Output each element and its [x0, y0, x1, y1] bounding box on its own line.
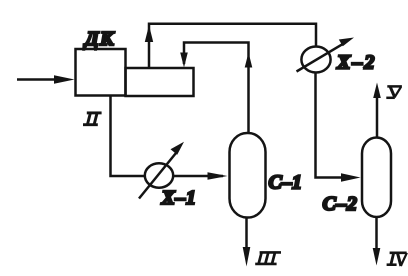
- arrowhead up on C-1 riser: [245, 53, 253, 68]
- wire stream III down from C-1 bottom: [243, 218, 251, 267]
- arrowhead up on box riser: [145, 25, 153, 42]
- arrowhead into C-1: [208, 172, 228, 180]
- wire from X-2 down and right into C-2: [316, 73, 345, 178]
- label IV (stream IV): [387, 253, 407, 266]
- heat exchanger X-1: [139, 142, 184, 199]
- svg-text:С–2: С–2: [323, 193, 358, 215]
- svg-text:Х–1: Х–1: [161, 187, 197, 209]
- svg-text:ДК: ДК: [83, 28, 115, 50]
- svg-text:Х–2: Х–2: [336, 52, 376, 74]
- wire recycle from C-1 top, left, down into unit box: [184, 43, 249, 134]
- vessel C-1 (separator): [230, 133, 266, 218]
- svg-text:С–1: С–1: [269, 172, 302, 194]
- label V (stream V): [386, 86, 402, 97]
- wire stream V up from C-2 top: [373, 83, 381, 138]
- label III (stream III): [255, 252, 281, 264]
- box DK (left block of unit): [76, 49, 126, 96]
- label II (stream II): [83, 113, 102, 125]
- heat exchanger X-2: [297, 38, 355, 73]
- arrowhead into C-2: [341, 173, 361, 181]
- box attached right block of DK unit: [126, 68, 194, 96]
- wire stream IV down from C-2 bottom: [373, 217, 381, 266]
- vessel C-2 (separator): [362, 138, 391, 218]
- wire feed arrow into DK unit (left inlet): [17, 75, 75, 83]
- arrowhead down into box: [180, 53, 188, 68]
- wire from box bottom down and right to X-1 and C-1: [111, 96, 224, 177]
- wire overhead line from box top to X-2: [149, 24, 316, 68]
